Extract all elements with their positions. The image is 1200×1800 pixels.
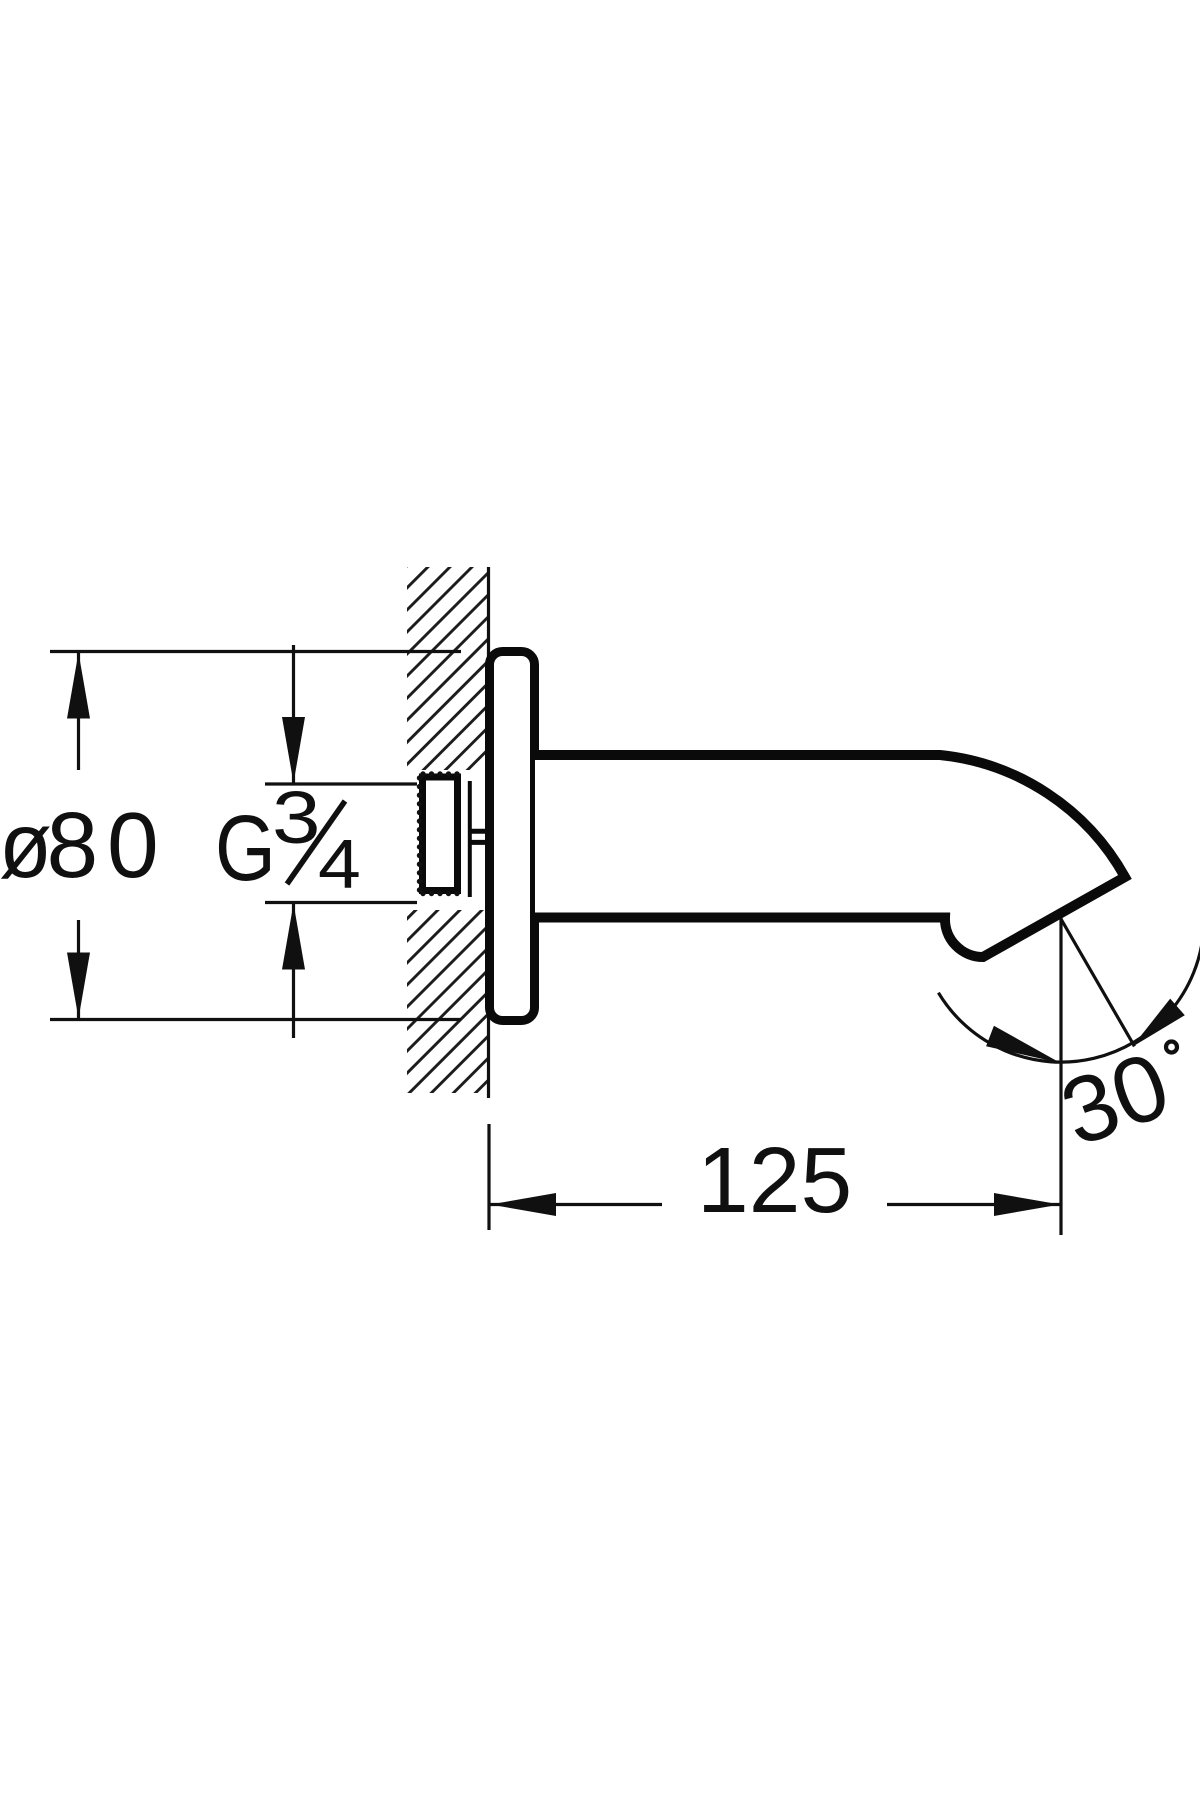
dimension line Ø80 top extension bbox=[50, 650, 461, 653]
angle arc arrowhead left bbox=[986, 1026, 1060, 1063]
svg-text:G: G bbox=[215, 797, 276, 901]
threaded connector inner vertical line bbox=[468, 781, 472, 897]
angle arc arrowhead right bbox=[1132, 999, 1185, 1047]
dimension line G3/4 bottom extension bbox=[265, 901, 417, 904]
svg-text:0: 0 bbox=[107, 793, 159, 897]
dimension line 125 horizontal with arrowheads bbox=[489, 1193, 1061, 1216]
angle 30deg leg line bbox=[1061, 919, 1135, 1046]
dimension line G3/4 vertical with arrowheads bbox=[282, 645, 305, 1038]
svg-text:4: 4 bbox=[318, 824, 361, 903]
svg-text:ø: ø bbox=[0, 794, 52, 898]
dimension line Ø80 bottom extension bbox=[50, 1018, 461, 1021]
label 30deg bbox=[1048, 1031, 1182, 1165]
connector mid stub lines bbox=[470, 831, 487, 842]
svg-text:125: 125 bbox=[697, 1128, 852, 1232]
threaded connector G3/4 body bbox=[417, 771, 460, 896]
angle 30deg dimension arc bbox=[938, 930, 1200, 1062]
wall face line bbox=[487, 567, 490, 1098]
label Ø80 bbox=[0, 793, 159, 898]
label G3/4 bbox=[215, 777, 361, 903]
dimension line G3/4 top extension bbox=[265, 782, 417, 785]
flange wall plate bbox=[490, 652, 535, 1021]
dimension line 125 right extension bbox=[1059, 918, 1062, 1235]
dimension line Ø80 vertical with arrowheads bbox=[67, 652, 90, 1020]
spout body outline bbox=[535, 755, 1125, 957]
svg-text:8: 8 bbox=[47, 793, 99, 897]
dimension line 125 left extension bbox=[487, 1124, 490, 1230]
